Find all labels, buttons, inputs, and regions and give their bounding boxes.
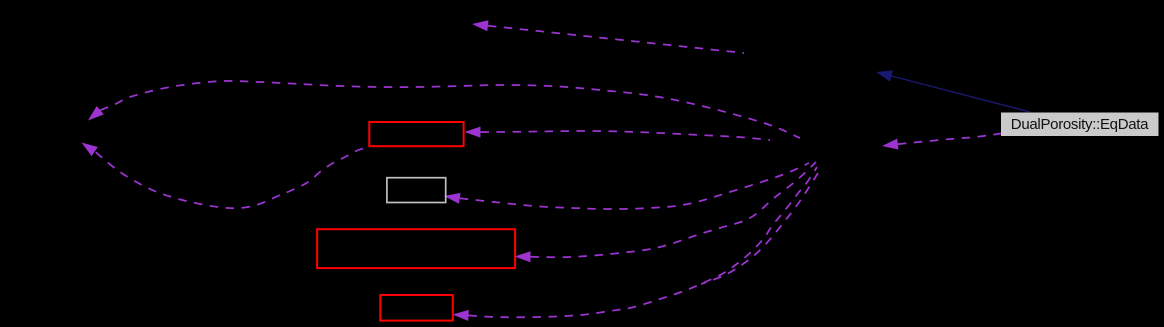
node DualPorosity::EqData (current class, gray filled) (1001, 113, 1159, 137)
gray node G1 (387, 178, 446, 203)
edge hub to red node R1 (481, 131, 771, 140)
edge hub to gray node G1 (460, 163, 809, 209)
edge hub to red node R3 (first of doubled edge) (469, 167, 818, 317)
arrowhead curve A (88, 106, 104, 121)
arrowhead top-left edge (472, 20, 489, 31)
arrowhead blue inheritance (876, 70, 893, 81)
arrowhead at hub (from EqData) (882, 139, 899, 150)
inheritance edge (blue solid) from EqData to base class (892, 76, 1031, 112)
arrowhead at red node R3 (453, 310, 469, 321)
edge to top-left invisible node (488, 26, 744, 53)
edge hub to red node R2 (531, 162, 817, 257)
arrowhead at gray node G1 (444, 193, 461, 204)
edge hub to red node R3 (second of doubled edge) (701, 173, 818, 284)
red node R2 (truncated) (317, 229, 515, 268)
arrowhead at red node R2 (515, 251, 531, 262)
edge S-curve B to far-left invisible node (96, 147, 368, 208)
red node R3 (truncated) (380, 295, 453, 321)
arrowhead curve B (82, 143, 98, 157)
red node R1 (truncated) (369, 122, 463, 146)
edge long curve A to far-left invisible node (100, 81, 800, 138)
edge DualPorosity::EqData to hub invisible node (898, 134, 1001, 145)
arrowhead at red node R1 (465, 127, 481, 138)
svg-text:DualPorosity::EqData: DualPorosity::EqData (1011, 116, 1149, 133)
